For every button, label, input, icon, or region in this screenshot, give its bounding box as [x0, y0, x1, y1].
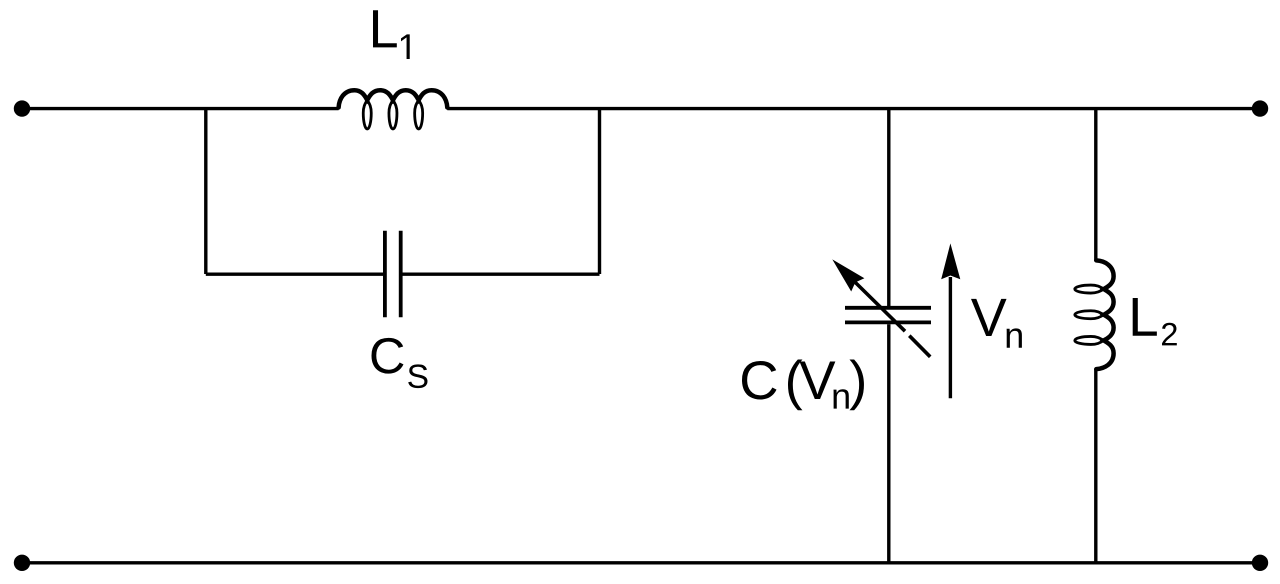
varactor arrow shaft: [854, 281, 906, 332]
label C(Vn): [742, 361, 777, 400]
label Vn: [971, 299, 1007, 336]
varactor arrow dash: [909, 336, 930, 357]
terminal dot bottom-right: [1252, 555, 1268, 571]
wire: varactor branch vertical (bottom): [887, 324, 890, 563]
wire: L2 branch vertical (bottom): [1094, 369, 1097, 563]
capacitor Cs plates: [385, 231, 401, 318]
wire: right branch vertical of Cs loop: [598, 109, 601, 274]
bottom rail wire: [22, 561, 1260, 564]
wire: L2 branch vertical (top): [1094, 109, 1097, 261]
wire: Cs branch horizontal: [206, 273, 600, 276]
voltage arrow Vn head: [941, 243, 960, 279]
wire: left branch vertical of Cs loop: [204, 109, 207, 274]
inductor L1: [339, 90, 448, 129]
voltage arrow Vn shaft: [949, 277, 952, 398]
label L1: [373, 10, 397, 47]
varactor arrowhead: [832, 259, 864, 291]
inductor L2: [1075, 260, 1114, 369]
terminal dot top-left: [14, 100, 30, 116]
terminal dot top-right: [1252, 100, 1268, 116]
top rail wire: [22, 107, 1260, 110]
label Cs: [372, 338, 404, 374]
wire: varactor branch vertical (top): [887, 109, 890, 306]
varactor C(Vn) plates: [845, 308, 931, 323]
terminal dot bottom-left: [14, 555, 30, 571]
label L2: [1133, 298, 1157, 336]
